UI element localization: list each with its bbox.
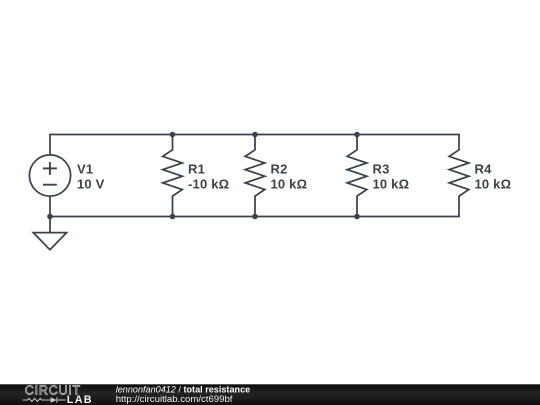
svg-text:R4: R4 [475,161,493,176]
node junction R3 top [354,132,360,138]
wire V1 top lead [49,135,51,155]
wire ground lead [49,217,51,233]
resistor R3 [347,135,367,217]
wire V1 bottom lead [49,196,51,216]
node junction R2 bottom [252,214,258,220]
svg-text:R3: R3 [373,161,390,176]
voltage source V1 [29,155,70,196]
svg-text:10 kΩ: 10 kΩ [271,176,308,191]
svg-text:R1: R1 [188,161,205,176]
svg-text:R2: R2 [271,161,288,176]
svg-text:10 kΩ: 10 kΩ [373,176,410,191]
node junction R1 top [170,132,176,138]
resistor R1 [163,135,183,217]
footer bar [0,384,540,405]
svg-text:10 V: 10 V [77,176,105,191]
node junction R3 bottom [354,214,360,220]
svg-text:LAB: LAB [67,394,93,405]
CircuitLab logo [23,383,93,405]
node junction R2 top [252,132,258,138]
wire bottom rail [49,216,460,218]
svg-text:V1: V1 [77,161,93,176]
resistor R4 [449,135,469,217]
svg-text:-10 kΩ: -10 kΩ [188,176,229,191]
svg-text:10 kΩ: 10 kΩ [475,176,512,191]
svg-text:http://circuitlab.com/ct699bf: http://circuitlab.com/ct699bf [116,394,233,405]
wire top rail [49,134,460,136]
node junction ground [47,214,53,220]
node junction R1 bottom [170,214,176,220]
svg-text:lennonfan0412 / total resistan: lennonfan0412 / total resistance [116,384,251,394]
ground [33,233,66,250]
resistor R2 [245,135,265,217]
